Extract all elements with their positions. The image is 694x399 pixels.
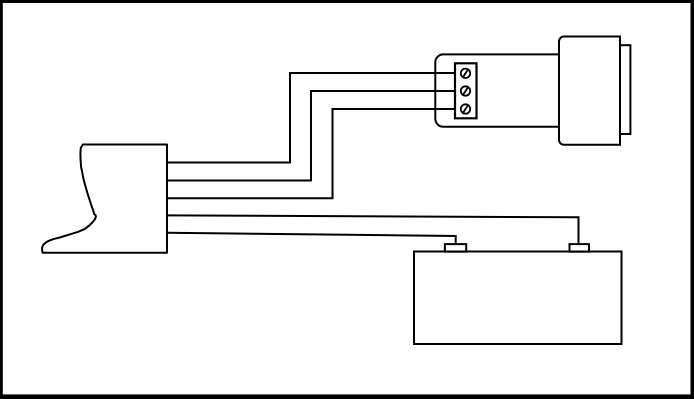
wire 4 (plug to battery right terminal)	[167, 215, 579, 244]
wire 3 (plug to screw terminal 3)	[167, 109, 455, 198]
screw terminal 1	[461, 69, 470, 78]
screw terminal 2	[461, 86, 470, 95]
wire 2 (plug to screw terminal 2)	[167, 91, 455, 181]
battery terminal + (right)	[570, 244, 590, 252]
plug tip	[620, 45, 630, 134]
wire 5 (plug to battery left terminal)	[167, 233, 456, 244]
wire 1 (plug to screw terminal 1)	[167, 73, 455, 163]
battery terminal - (left)	[445, 244, 466, 252]
battery BT1	[414, 252, 622, 345]
plug barrel J1	[559, 37, 620, 145]
screw terminal 3	[461, 104, 470, 113]
terminal block TB1	[455, 63, 477, 118]
connector body U1	[435, 54, 585, 126]
plug P1 (molded power plug with hand-drawn cable boot)	[42, 145, 167, 253]
